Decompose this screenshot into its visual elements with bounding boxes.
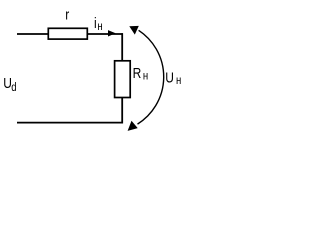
svg-text:н: н [97,20,102,33]
svg-text:d: d [11,81,16,94]
svg-text:i: i [94,15,97,32]
svg-text:U: U [165,69,174,86]
svg-text:н: н [143,70,148,83]
svg-text:R: R [133,65,142,82]
svg-text:н: н [176,74,181,87]
svg-text:r: r [65,6,69,23]
